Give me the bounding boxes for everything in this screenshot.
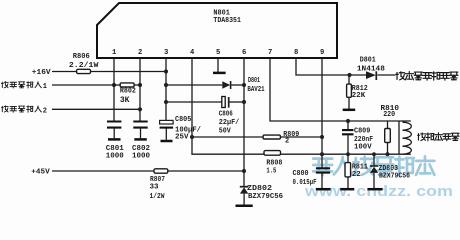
wire pin4 column then right to R808 xyxy=(192,58,264,154)
node C806/pin6 xyxy=(242,100,246,104)
wire input1 to pin1 xyxy=(52,84,114,86)
wire pin3 to C806 xyxy=(166,101,222,103)
capacitor C806 electrolytic xyxy=(222,97,225,108)
node +16V/pin3 xyxy=(164,69,168,73)
svg-text:R802: R802 xyxy=(120,88,136,96)
svg-text:5: 5 xyxy=(216,49,220,57)
svg-text:C809: C809 xyxy=(354,128,370,136)
wire D801 1N4148 output xyxy=(378,74,396,76)
resistor R812 xyxy=(348,75,350,84)
wire pin1 column xyxy=(113,58,115,121)
wire +16V rail left of R806 xyxy=(52,71,77,73)
watermark row1 电子网站 blue characters xyxy=(313,156,434,175)
wire pin5 stub xyxy=(217,58,219,72)
ground C802 xyxy=(134,138,147,141)
svg-text:0.015µF: 0.015µF xyxy=(293,179,317,187)
node rail/R810 xyxy=(385,152,389,156)
svg-text:1/2W: 1/2W xyxy=(150,193,165,201)
wire pin6 column xyxy=(243,58,245,187)
wire +45V to R807 xyxy=(52,170,154,172)
op-amp/IC N801 TDA8351 body xyxy=(97,3,337,58)
svg-text:1000: 1000 xyxy=(132,153,150,161)
svg-text:9: 9 xyxy=(320,49,324,57)
svg-text:50V: 50V xyxy=(219,127,231,135)
svg-text:BZX79C56: BZX79C56 xyxy=(248,193,283,201)
diode D801 BAV21 xyxy=(222,81,230,89)
wire R807 to pin6 xyxy=(168,170,244,172)
svg-text:BZX79C56: BZX79C56 xyxy=(379,172,410,180)
ground ZD802 xyxy=(236,205,253,208)
ground C805 xyxy=(161,140,173,143)
node +45V rail/pin6 xyxy=(242,169,246,173)
svg-text:R808: R808 xyxy=(266,160,282,168)
resistor R810 xyxy=(387,121,389,129)
label 场激励输入1 xyxy=(2,82,42,88)
resistor R802 box xyxy=(120,83,134,87)
svg-text:R806: R806 xyxy=(73,53,90,61)
node input1/pin1 xyxy=(112,83,116,87)
svg-text:2: 2 xyxy=(138,49,142,57)
resistor R806 box xyxy=(77,69,91,73)
node pin4/R809 xyxy=(190,135,194,139)
wire +16V rail to pin3 xyxy=(91,71,167,73)
svg-text:4: 4 xyxy=(190,49,195,57)
svg-text:25V: 25V xyxy=(175,134,189,142)
capacitor C809 xyxy=(347,121,349,129)
label 场逆程脉冲输出 xyxy=(396,72,458,80)
wire R809 from pin4 to pin9 xyxy=(192,136,263,138)
node R802/pin2 xyxy=(138,83,142,87)
svg-text:220: 220 xyxy=(383,111,395,119)
svg-text:2: 2 xyxy=(43,107,47,115)
ground R811 xyxy=(340,188,354,191)
node rail/pin9 xyxy=(320,152,324,156)
node pin3/C806 wire xyxy=(164,100,168,104)
svg-text:7: 7 xyxy=(268,49,272,57)
ground R812 xyxy=(343,109,356,112)
svg-text:3: 3 xyxy=(164,49,168,57)
zener ZD803 xyxy=(373,154,375,166)
node R809/pin9 xyxy=(320,135,324,139)
wire input2 to pin2 xyxy=(52,108,140,110)
node input2/pin2 xyxy=(138,107,142,111)
ground C800 xyxy=(316,188,331,191)
node rail/ZD803 xyxy=(372,152,376,156)
label 场激励输入2 xyxy=(2,106,42,112)
svg-text:3K: 3K xyxy=(120,96,130,105)
node pin8 wire/R812 xyxy=(347,73,351,77)
svg-text:C805: C805 xyxy=(175,116,191,124)
svg-text:C806: C806 xyxy=(219,110,233,118)
capacitor C805 electrolytic xyxy=(160,120,174,124)
svg-text:www. cndzz. com: www. cndzz. com xyxy=(304,183,453,200)
deflection coil 场偏转线圈 xyxy=(398,121,400,154)
wire feedback rail R808 to coil xyxy=(281,153,411,155)
resistor R811 xyxy=(347,154,349,162)
svg-text:1000: 1000 xyxy=(106,153,124,161)
svg-text:D801: D801 xyxy=(248,77,260,85)
svg-text:22µF/: 22µF/ xyxy=(219,119,240,127)
svg-text:2: 2 xyxy=(285,138,289,146)
diode D801 1N4148 xyxy=(366,71,376,79)
svg-text:1N4148: 1N4148 xyxy=(357,65,385,73)
svg-text:22K: 22K xyxy=(352,92,366,100)
wire pin8 column and wire to diode xyxy=(296,58,366,75)
svg-text:ZD802: ZD802 xyxy=(247,185,273,193)
ground ZD803 xyxy=(367,188,382,191)
svg-text:33: 33 xyxy=(150,184,159,192)
svg-text:6: 6 xyxy=(242,49,246,57)
svg-text:1: 1 xyxy=(112,49,117,57)
svg-text:D801: D801 xyxy=(360,57,376,65)
node diode/pin6 xyxy=(242,83,246,87)
svg-text:1: 1 xyxy=(43,83,47,91)
wire R802 to pin2 xyxy=(134,84,140,86)
svg-text:+16V: +16V xyxy=(32,69,51,77)
capacitor C801 xyxy=(107,122,121,128)
zener ZD802 xyxy=(240,186,249,188)
svg-text:TDA8351: TDA8351 xyxy=(213,17,241,25)
svg-text:+45V: +45V xyxy=(31,168,50,176)
wire pin7 column and top rail to coil xyxy=(270,58,411,121)
svg-text:1.5: 1.5 xyxy=(266,167,276,175)
label 场偏转线圈 xyxy=(418,133,460,141)
svg-text:22: 22 xyxy=(352,171,361,179)
ground pin5 xyxy=(213,72,226,75)
wire pin9 column xyxy=(321,58,323,168)
svg-text:2.2/1W: 2.2/1W xyxy=(69,62,99,70)
svg-text:BAV21: BAV21 xyxy=(247,86,264,94)
wire pin1 to R802 xyxy=(114,84,120,86)
svg-text:C800: C800 xyxy=(293,170,309,178)
node rail/C809 R811 xyxy=(346,152,350,156)
resistor R808 box on feedback rail xyxy=(264,151,281,156)
wire pin3 to D801 anode xyxy=(166,84,222,86)
wire pin3 column xyxy=(165,58,167,120)
svg-text:8: 8 xyxy=(294,49,298,57)
capacitor C802 xyxy=(133,122,147,128)
wire pin2 column xyxy=(139,58,141,121)
node pin3/diode wire xyxy=(164,83,168,87)
resistor R807 box xyxy=(154,169,168,173)
resistor R809 box xyxy=(263,135,280,139)
ground C801 xyxy=(108,138,121,141)
svg-text:100V: 100V xyxy=(354,143,372,151)
capacitor C800 xyxy=(316,168,330,172)
